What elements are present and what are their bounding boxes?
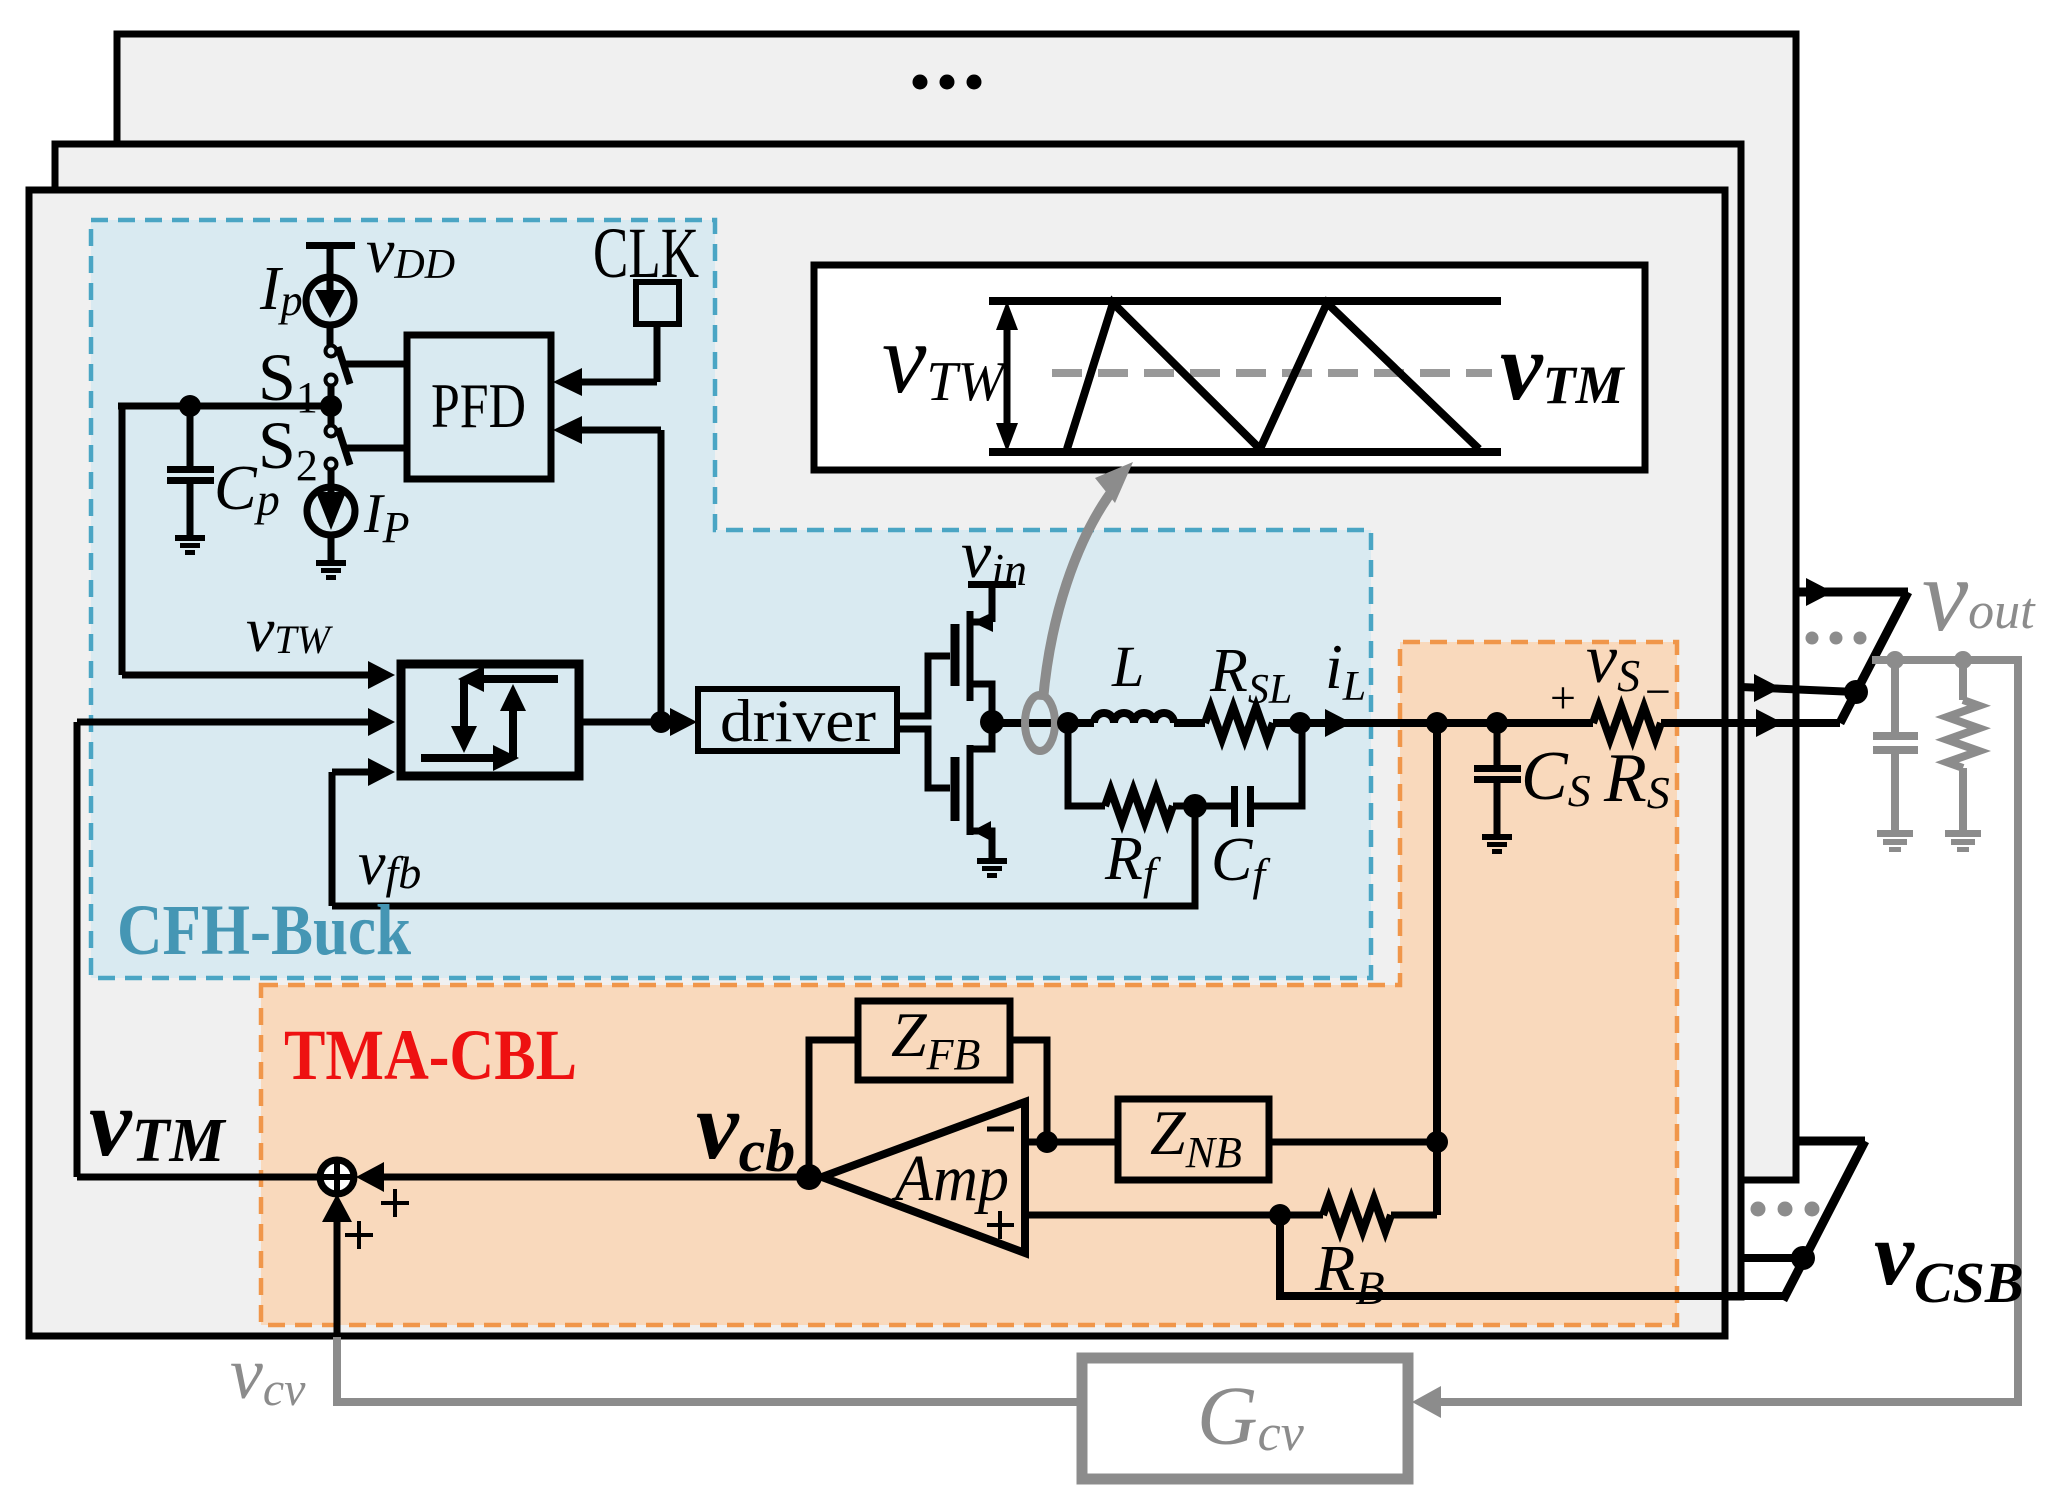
page 1 (front phase)	[29, 190, 1725, 1336]
switch S1	[326, 346, 405, 407]
vDD rail	[306, 242, 355, 277]
node at CS tap	[1486, 712, 1508, 734]
svg-text:vcv: vcv	[230, 1333, 306, 1416]
node after RSL	[1289, 712, 1311, 734]
svg-text:vCSB: vCSB	[1874, 1205, 2024, 1315]
ground (below Cp)	[175, 535, 205, 555]
amp plus sign	[987, 1211, 1014, 1239]
CLK input square	[636, 282, 679, 324]
label vcv	[230, 1333, 306, 1416]
wire comparator output to PFD second input	[553, 416, 661, 722]
wire vTM into comparator	[77, 708, 395, 1177]
label vTW wire	[246, 594, 334, 665]
node Rf-Cf	[1183, 794, 1207, 818]
svg-text:+: +	[1550, 672, 1576, 723]
current source IP (bottom)	[307, 487, 355, 560]
node vout left	[1886, 651, 1904, 669]
label ZFB	[891, 999, 980, 1079]
label vTM left	[89, 1069, 226, 1176]
ground (below NMOS)	[977, 858, 1007, 878]
vTM dashed mid line	[1052, 369, 1492, 377]
wire RB to vertical	[1391, 1212, 1437, 1219]
gray sensing ellipse	[1025, 695, 1055, 751]
switch S2	[326, 406, 405, 487]
block ZFB	[858, 1001, 1010, 1080]
wire node down to Rf	[1068, 723, 1105, 806]
label ZNB	[1150, 1097, 1242, 1177]
wire node to Cp	[118, 403, 331, 410]
comparator block (hysteresis)	[401, 664, 579, 776]
capacitor Cp	[167, 406, 214, 535]
node on mux slant	[1844, 680, 1868, 704]
label vout	[1922, 538, 2036, 653]
op-amp Amp	[822, 1102, 1025, 1253]
label RB	[1314, 1232, 1385, 1315]
mux vCSB: middle wire from middle page	[1741, 1254, 1803, 1262]
mux ellipsis dots	[1806, 632, 1867, 645]
wire Rf to Cf	[1173, 803, 1232, 810]
block Gcv	[1082, 1358, 1408, 1479]
capacitor CS	[1474, 723, 1521, 834]
mux vCSB: slant edge	[1783, 1141, 1865, 1300]
label Cp	[214, 452, 280, 525]
gray load capacitor	[1873, 660, 1918, 830]
node at amp minus output	[1036, 1131, 1058, 1153]
block PFD	[407, 335, 551, 479]
label CFH-Buck	[117, 890, 411, 970]
label vTM waveform	[1500, 313, 1626, 420]
label Ip	[259, 255, 303, 325]
iL arrow	[1325, 709, 1352, 737]
TMA-CBL shaded region	[261, 642, 1677, 1325]
amp minus sign	[987, 1127, 1014, 1132]
wire L to RSL	[1174, 719, 1205, 727]
label RSL	[1209, 637, 1292, 713]
gray vout wire	[1438, 660, 2018, 1402]
current source Ip (top)	[306, 277, 354, 346]
node vout right	[1954, 651, 1972, 669]
resistor RS (sense)	[1593, 707, 1661, 739]
node on main rail	[1426, 712, 1448, 734]
arrow on output wire	[1756, 709, 1783, 737]
ellipsis dots top	[913, 75, 982, 90]
wire vCSB from RB node	[1280, 1215, 1783, 1296]
transistor M1 (PMOS)	[955, 611, 993, 723]
transistor M2 (NMOS)	[955, 723, 992, 858]
label CS	[1521, 738, 1591, 816]
vTW double arrow	[996, 301, 1018, 452]
plus sign below summing	[345, 1221, 373, 1249]
svg-text:−: −	[1645, 666, 1671, 717]
svg-text:CFH-Buck: CFH-Buck	[117, 890, 411, 970]
wire ZFB left to vcb node	[809, 1040, 858, 1177]
page 3 (back phase)	[117, 34, 1796, 1180]
label driver	[720, 688, 876, 754]
label RS	[1603, 740, 1670, 818]
node vcb	[796, 1164, 822, 1190]
wire amp plus input	[1025, 1212, 1323, 1219]
label vTW waveform	[882, 303, 1009, 414]
svg-text:L: L	[1111, 634, 1144, 699]
label Rf	[1104, 825, 1162, 899]
CFH-Buck shaded region	[91, 220, 1371, 978]
plus sign right of summing	[381, 1189, 409, 1217]
wire vfb into comparator	[332, 758, 395, 906]
wire vTM output of summing	[77, 1174, 320, 1181]
wire ZFB right to minus node	[1010, 1040, 1047, 1142]
svg-text:TMA-CBL: TMA-CBL	[284, 1015, 577, 1095]
wire ZNB to vertical	[1269, 1139, 1437, 1146]
svg-text:CLK: CLK	[593, 213, 699, 293]
gray load resistor	[1947, 660, 1979, 830]
wire RSL to node	[1273, 719, 1437, 727]
svg-text:vout: vout	[1922, 538, 2036, 653]
waveform bottom rail	[989, 448, 1501, 456]
wire comparator output to driver	[579, 708, 697, 736]
wire switching node to L	[992, 719, 1094, 727]
ground (gray, below cap)	[1877, 830, 1913, 852]
label Gcv	[1197, 1370, 1305, 1463]
svg-text:Amp: Amp	[891, 1142, 1009, 1215]
arrow into summing junction	[356, 1162, 384, 1192]
output mux vout: top arrow from back page	[1796, 578, 1908, 606]
label vcb	[696, 1072, 795, 1184]
svg-text:driver: driver	[720, 688, 876, 754]
gray arrow into Gcv	[1412, 1386, 1441, 1418]
wire node to RS	[1437, 719, 1593, 727]
resistor RB	[1323, 1199, 1391, 1231]
label PFD	[431, 370, 526, 441]
waveform inset box	[814, 265, 1645, 470]
node before driver	[650, 711, 672, 733]
mux vCSB ellipsis dots	[1751, 1202, 1820, 1217]
node at Cp top	[179, 395, 201, 417]
node: L input	[1057, 712, 1079, 734]
label L	[1111, 634, 1144, 699]
gray curved arrow to waveform	[1043, 462, 1133, 700]
label IP	[363, 483, 410, 552]
label vCSB	[1874, 1205, 2024, 1315]
triangle wave	[1067, 303, 1479, 449]
node at RB left	[1269, 1204, 1291, 1226]
mux vCSB: top edge from back page	[1796, 1137, 1865, 1146]
node at ZNB junction	[1426, 1131, 1448, 1153]
ground (below IP)	[316, 560, 346, 580]
wire driver to PMOS gate	[897, 656, 950, 716]
waveform top rail	[989, 297, 1501, 305]
node: switching node	[980, 710, 1004, 734]
long vertical wire to ZNB	[1433, 723, 1441, 1215]
wire amp minus to ZNB	[1025, 1139, 1118, 1146]
node on vCSB slant	[1791, 1246, 1815, 1270]
label TMA-CBL	[284, 1015, 577, 1095]
ground (gray, below resistor)	[1945, 830, 1981, 852]
wire vcv into summing (black part)	[322, 1194, 352, 1339]
hysteresis symbol inside comparator	[421, 666, 558, 771]
label CLK	[593, 213, 699, 293]
label vS plus minus	[1550, 621, 1671, 723]
label iL	[1325, 631, 1366, 710]
label Amp	[891, 1142, 1009, 1215]
wire driver to NMOS gate	[897, 729, 950, 788]
ground (below CS)	[1482, 834, 1512, 854]
label Cf	[1211, 826, 1271, 900]
wire vTW from Cp node to comparator	[122, 406, 395, 689]
wire RS to output mux	[1661, 719, 1840, 727]
gray wire Gcv output to vcv	[337, 1337, 1082, 1402]
driver block	[698, 689, 897, 751]
inductor L	[1094, 713, 1174, 723]
label S1	[258, 339, 318, 422]
svg-text:PFD: PFD	[431, 370, 526, 441]
vin rail	[968, 581, 1016, 622]
resistor RSL	[1205, 707, 1273, 739]
label vin	[961, 516, 1027, 595]
label S2	[258, 407, 318, 490]
block ZNB	[1118, 1099, 1269, 1180]
wire vfb	[332, 806, 1195, 906]
label vDD	[366, 215, 455, 288]
wire vcb to summing junction	[380, 1174, 822, 1181]
output mux vout: slant edge	[1840, 592, 1908, 723]
resistor Rf	[1105, 790, 1173, 822]
capacitor Cf	[1231, 723, 1302, 827]
page 2 (middle phase)	[55, 144, 1741, 1297]
output mux vout: middle arrow from middle page	[1741, 674, 1856, 702]
label vfb	[358, 830, 421, 898]
wire CLK to PFD	[553, 324, 657, 396]
summing junction	[320, 1160, 354, 1194]
node: switch mid node	[320, 395, 342, 417]
